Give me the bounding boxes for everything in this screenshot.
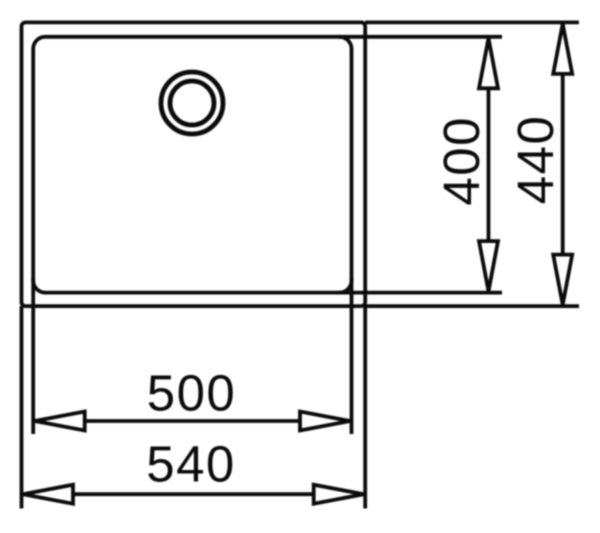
- svg-text:400: 400: [433, 116, 490, 206]
- extension line right outer: [363, 306, 367, 508]
- arrowhead 440 up: [553, 24, 572, 74]
- extension line top inner: [338, 35, 502, 39]
- arrowhead 500 left: [35, 412, 85, 431]
- dimension line 440 vertical: [561, 74, 565, 255]
- arrowhead 400 down: [479, 241, 498, 291]
- sink inner bowl rectangle: [33, 37, 351, 293]
- extension line bottom inner: [338, 291, 502, 295]
- drain hole inner circle: [170, 81, 214, 125]
- dimension line 500 horizontal: [85, 419, 300, 423]
- drain hole outer circle: [161, 72, 223, 134]
- arrowhead 400 up: [479, 38, 498, 88]
- svg-text:540: 540: [146, 436, 236, 493]
- extension line left outer: [20, 306, 24, 508]
- extension line top outer: [365, 20, 579, 24]
- dimension line 540 horizontal: [73, 492, 314, 496]
- extension line bottom outer: [365, 304, 579, 308]
- arrowhead 500 right: [300, 412, 350, 431]
- arrowhead 440 down: [553, 255, 572, 305]
- extension line right inner: [350, 278, 354, 434]
- dimension line 400 vertical: [487, 88, 491, 242]
- extension line left inner: [31, 278, 35, 434]
- arrowhead 540 left: [23, 485, 73, 504]
- arrowhead 540 right: [314, 485, 364, 504]
- svg-text:440: 440: [507, 115, 564, 205]
- sink outer flange rectangle: [22, 22, 366, 306]
- svg-text:500: 500: [147, 365, 237, 422]
